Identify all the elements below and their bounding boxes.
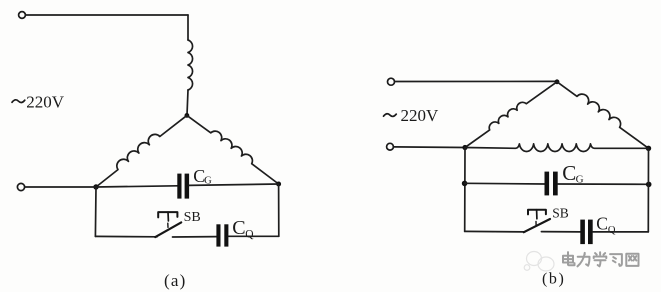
label ~220V (a) bbox=[12, 93, 65, 112]
capacitor CG (a) bbox=[177, 174, 189, 199]
terminal bottom-left (a) bbox=[17, 183, 24, 190]
winding right leg (a) bbox=[187, 115, 279, 184]
wire left vertical (a) bbox=[94, 187, 97, 236]
wire top (b) bbox=[395, 80, 557, 82]
capacitor CQ (a) bbox=[216, 224, 228, 246]
node bottom-left (a) bbox=[93, 184, 98, 189]
svg-text:C: C bbox=[596, 214, 608, 234]
wire right vertical (a) bbox=[278, 184, 280, 236]
inductor main winding L (a) vertical bbox=[188, 40, 193, 90]
wire down to coil (a) bbox=[187, 15, 189, 40]
watermark text 电力学习网 (vector glyphs) bbox=[563, 252, 639, 266]
label CQ (b) bbox=[596, 214, 616, 236]
switch SB stem (b) bbox=[536, 210, 538, 219]
svg-text:220V: 220V bbox=[401, 106, 440, 125]
label CQ (a) bbox=[232, 217, 254, 241]
switch SB dashed link (b) bbox=[535, 221, 537, 225]
svg-text:G: G bbox=[576, 173, 584, 185]
wire bottom terminal to node (a) bbox=[25, 186, 96, 188]
node bottom-right (a) bbox=[276, 182, 281, 187]
terminal bottom-left (b) bbox=[387, 143, 394, 150]
glyph xue bbox=[594, 252, 607, 266]
svg-text:SB: SB bbox=[552, 206, 569, 221]
switch SB actuator bar (a) bbox=[158, 212, 177, 217]
terminal top-left (b) bbox=[388, 78, 395, 85]
switch SB moving contact (b) bbox=[524, 219, 550, 232]
svg-text:(b): (b) bbox=[542, 271, 565, 288]
wire node to CG (a) bbox=[96, 186, 177, 187]
svg-text:(a): (a) bbox=[164, 271, 186, 290]
wire CQ to right vertical (b) bbox=[593, 231, 649, 233]
glyph xi bbox=[610, 254, 622, 266]
wire CQ to right vertical (a) bbox=[228, 235, 278, 237]
node bottom-right (b) bbox=[646, 146, 651, 151]
wire fixed contact to CQ (a) bbox=[173, 236, 217, 238]
wire CG to right node (a) bbox=[189, 184, 278, 185]
capacitor CQ (b) bbox=[580, 220, 592, 245]
junction node right CG (b) bbox=[646, 182, 652, 188]
wire right vertical (b) bbox=[647, 148, 649, 232]
svg-text:220V: 220V bbox=[26, 93, 65, 112]
junction node left CG (b) bbox=[462, 181, 468, 187]
winding bottom (b) bbox=[465, 144, 649, 152]
node apex (a) bbox=[185, 113, 190, 118]
switch SB actuator bar (b) bbox=[528, 210, 546, 215]
capacitor CG (b) bbox=[545, 172, 558, 196]
switch SB stem (a) bbox=[167, 212, 169, 221]
winding right leg (b) bbox=[557, 82, 649, 149]
winding left leg (b) bbox=[465, 82, 557, 148]
wire CG right (b) bbox=[558, 183, 649, 185]
svg-text:Q: Q bbox=[608, 225, 616, 236]
wire left vertical (b) bbox=[464, 148, 466, 232]
glyph wang bbox=[626, 254, 638, 266]
glyph dian bbox=[563, 252, 575, 265]
label ~220V (b) bbox=[384, 106, 440, 125]
wire bottom terminal to node (b) bbox=[394, 146, 465, 149]
wire bottom branch (b) bbox=[465, 230, 525, 233]
label CG (b) bbox=[562, 161, 583, 185]
svg-text:Q: Q bbox=[245, 228, 254, 240]
wire coil to apex node (a) bbox=[187, 90, 188, 115]
wire top (a) bbox=[26, 14, 188, 16]
svg-text:SB: SB bbox=[184, 210, 201, 225]
svg-text:G: G bbox=[204, 175, 212, 186]
switch SB moving contact (a) bbox=[155, 222, 181, 237]
glyph li bbox=[578, 253, 590, 266]
label CG (a) bbox=[193, 166, 212, 186]
node apex (b) bbox=[555, 79, 560, 84]
wire CG left (b) bbox=[465, 182, 545, 185]
winding left leg (a) bbox=[96, 115, 187, 187]
switch SB dashed link (a) bbox=[167, 223, 169, 227]
node bottom-left (b) bbox=[462, 145, 467, 150]
svg-text:C: C bbox=[562, 161, 576, 185]
terminal top-left (a) bbox=[19, 12, 26, 19]
wire fixed contact to CQ (b) bbox=[541, 231, 580, 233]
wire bottom-left horizontal (a) bbox=[95, 235, 157, 237]
watermark logo faint circles bbox=[524, 252, 554, 272]
